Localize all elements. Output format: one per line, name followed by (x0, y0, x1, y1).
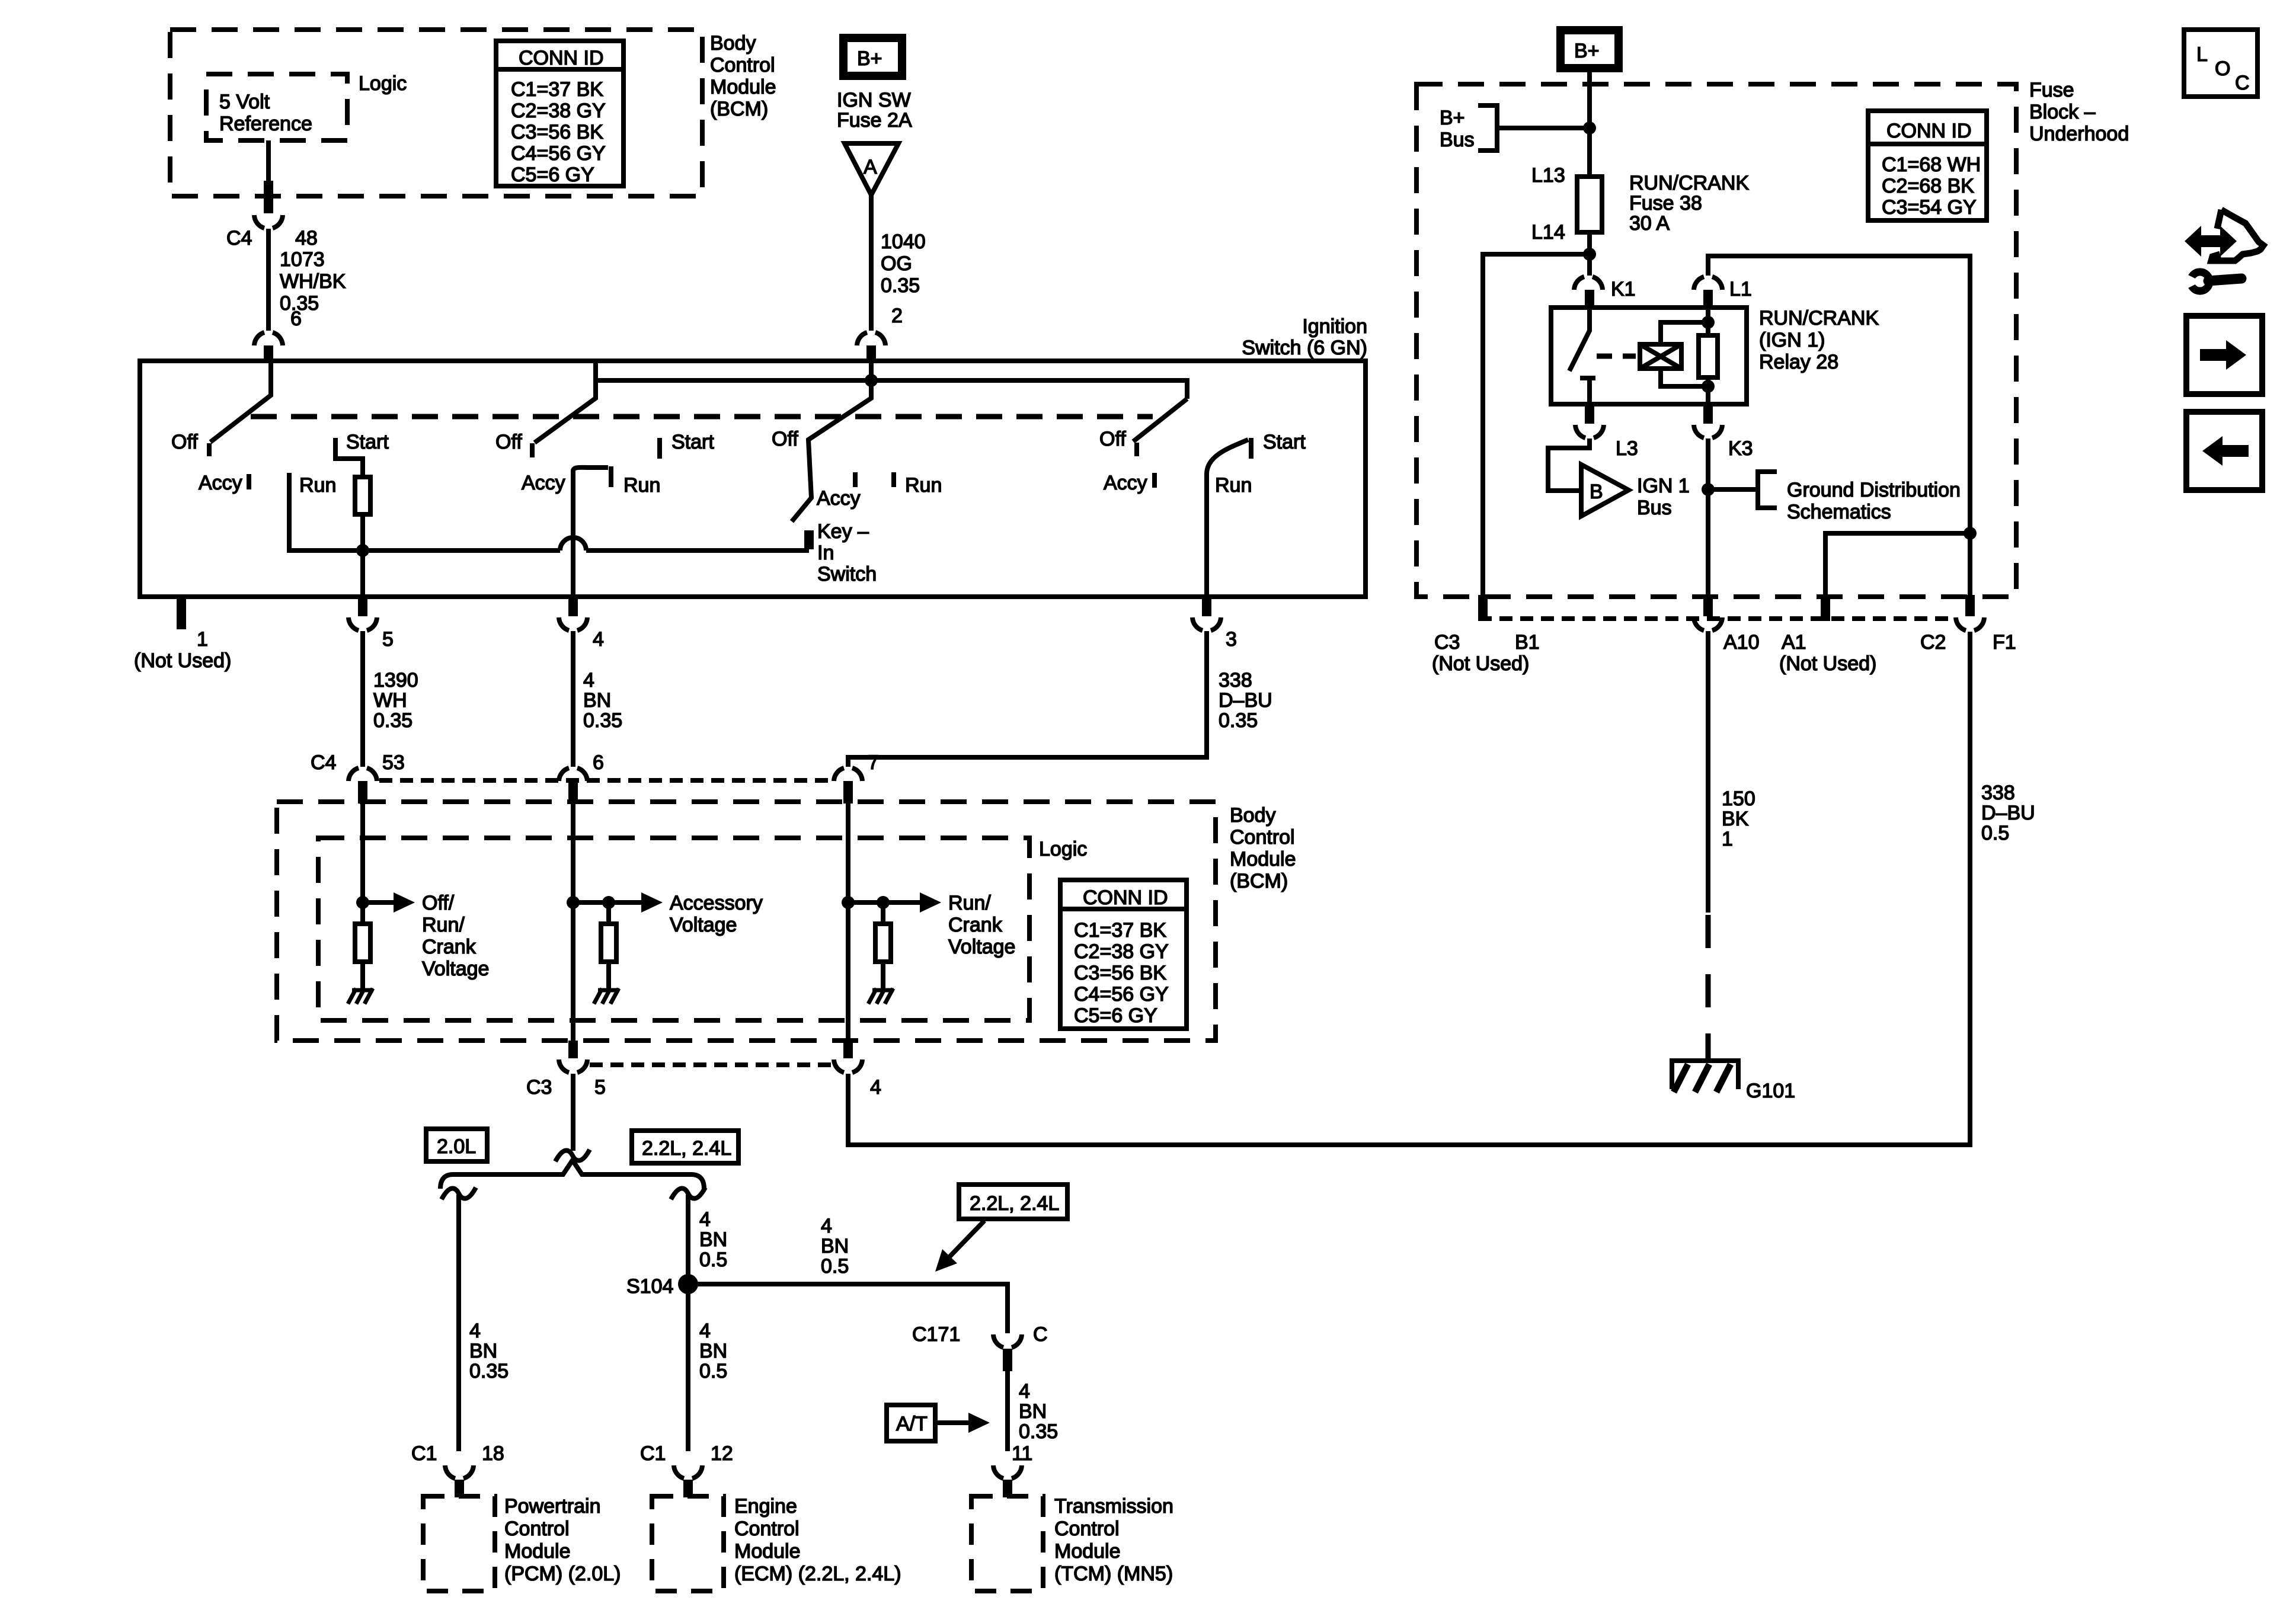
switch 2 Start contact (657, 438, 662, 459)
connector C1-12 (ECM) (674, 1465, 702, 1478)
dotted connector row C4 (379, 778, 832, 783)
BCM module box (top) (170, 30, 702, 196)
CONN ID table 2 (1060, 880, 1187, 1029)
ground (BCM off/run/crank) (348, 988, 373, 1004)
svg-text:0.35: 0.35 (881, 274, 920, 297)
A1 pin stub (not used) (1821, 595, 1830, 621)
svg-text:C5=6 GY: C5=6 GY (511, 164, 594, 186)
svg-text:Module: Module (734, 1540, 801, 1563)
svg-text:Accy: Accy (522, 472, 565, 494)
svg-text:150: 150 (1722, 788, 1755, 810)
svg-text:C1: C1 (640, 1442, 666, 1465)
svg-text:IGN SW: IGN SW (837, 89, 911, 111)
wire 1390 WH (pin5 to C4-53) (360, 631, 365, 767)
BCM module box (lower) (277, 802, 1216, 1041)
svg-text:Ignition: Ignition (1302, 315, 1367, 338)
svg-text:C1=37 BK: C1=37 BK (511, 78, 603, 101)
A/T box (887, 1405, 935, 1441)
double arrow on icon (2185, 226, 2237, 257)
wire from 5V reference down (266, 140, 271, 182)
svg-text:C1: C1 (411, 1442, 437, 1465)
wire K3 down to A10 (1706, 438, 1710, 596)
svg-text:D–BU: D–BU (1981, 802, 2035, 824)
svg-text:12: 12 (711, 1442, 733, 1465)
fuse block box (1416, 84, 2016, 597)
svg-text:Schematics: Schematics (1787, 501, 1891, 523)
wire to ground distribution bracket (1708, 487, 1758, 492)
arrow run/crank voltage (848, 900, 922, 905)
svg-text:4: 4 (583, 669, 594, 692)
ground (BCM accessory) (594, 988, 619, 1004)
svg-text:Module: Module (1054, 1540, 1121, 1563)
svg-text:2: 2 (891, 305, 903, 327)
svg-text:Accy: Accy (817, 487, 861, 510)
junction below fuse (1583, 248, 1596, 261)
svg-text:Logic: Logic (1039, 838, 1087, 860)
svg-text:Module: Module (1230, 848, 1296, 870)
connector A10 (1703, 595, 1713, 616)
split brace (440, 1160, 704, 1189)
svg-text:Body: Body (710, 32, 756, 55)
svg-text:L14: L14 (1531, 221, 1565, 244)
svg-text:0.5: 0.5 (1981, 822, 2009, 844)
svg-text:(Not Used): (Not Used) (134, 649, 231, 672)
relay box RUN/CRANK (IGN 1) Relay 28 (1551, 308, 1747, 404)
svg-text:1390: 1390 (373, 669, 418, 692)
L1 line through relay (1706, 308, 1710, 404)
connector L1 (relay) (1694, 277, 1722, 290)
svg-text:BN: BN (583, 689, 611, 712)
svg-text:53: 53 (382, 751, 405, 774)
svg-text:A/T: A/T (896, 1413, 928, 1435)
relay switch arm (1569, 308, 1590, 371)
svg-text:BN: BN (821, 1235, 849, 1257)
underhood location icon (car outline) (2211, 210, 2263, 261)
switch 3 blade to key-in (792, 380, 871, 521)
svg-text:Relay 28: Relay 28 (1759, 351, 1838, 373)
svg-text:Block –: Block – (2029, 101, 2096, 123)
LOC reference box (2184, 30, 2257, 97)
connector L3 (relay out) (1585, 404, 1594, 424)
svg-text:(PCM) (2.0L): (PCM) (2.0L) (504, 1563, 621, 1585)
svg-text:1073: 1073 (280, 248, 325, 271)
svg-text:4: 4 (821, 1215, 832, 1237)
dashed wire to G101 (1706, 915, 1711, 1061)
switch 1 Accy contact (247, 474, 251, 489)
B+ power symbol box (843, 38, 902, 76)
svg-text:RUN/CRANK: RUN/CRANK (1629, 172, 1749, 194)
fuse 38 element (1577, 177, 1602, 232)
svg-text:1: 1 (197, 628, 208, 651)
svg-text:Fuse: Fuse (2029, 79, 2074, 101)
connector pin 4 at box bottom (568, 597, 578, 616)
junction pin 5 node (356, 544, 369, 557)
svg-text:Powertrain: Powertrain (504, 1495, 601, 1518)
svg-text:(Not Used): (Not Used) (1779, 652, 1876, 675)
svg-text:A: A (864, 156, 877, 178)
svg-text:Module: Module (710, 76, 776, 98)
wire key-in to pin5 node (with hop over pin4 wire) (363, 548, 560, 553)
ground (BCM run/crank) (868, 988, 894, 1004)
PCM module box (423, 1496, 495, 1591)
ignition switch box (140, 361, 1366, 597)
junction ground distribution tap (1702, 483, 1715, 496)
svg-text:C3: C3 (1434, 631, 1460, 654)
IGN 1 Bus triangle B (1581, 465, 1629, 516)
svg-text:B+: B+ (1574, 40, 1600, 62)
svg-text:BN: BN (699, 1340, 727, 1362)
svg-text:C5=6 GY: C5=6 GY (1074, 1004, 1157, 1027)
switch 4 blade (1133, 399, 1187, 441)
svg-text:Accy: Accy (199, 472, 242, 494)
switch 2 Off contact (530, 443, 535, 457)
svg-text:B+: B+ (857, 47, 882, 70)
svg-text:Run: Run (905, 474, 942, 497)
svg-text:Voltage: Voltage (422, 958, 489, 980)
svg-text:C3=56 BK: C3=56 BK (511, 121, 603, 143)
svg-text:Control: Control (1230, 826, 1295, 849)
svg-text:Accy: Accy (1104, 472, 1147, 494)
svg-text:BN: BN (1019, 1400, 1047, 1423)
connector C3-5 below BCM (568, 1041, 578, 1058)
fuse symbol triangle A (845, 143, 898, 195)
svg-text:Control: Control (734, 1518, 800, 1540)
arrow A/T to wire (935, 1420, 971, 1425)
connector pin 5 at box bottom (358, 597, 367, 616)
svg-text:Off: Off (772, 428, 798, 450)
svg-text:1040: 1040 (881, 231, 926, 253)
svg-text:C4=56 GY: C4=56 GY (511, 142, 606, 165)
svg-text:Run: Run (623, 474, 660, 497)
svg-text:K1: K1 (1611, 278, 1636, 300)
svg-text:C4: C4 (226, 227, 252, 249)
svg-text:Logic: Logic (359, 72, 407, 95)
pin 3 wire down (1204, 473, 1209, 597)
svg-text:30 A: 30 A (1629, 212, 1670, 235)
svg-text:Transmission: Transmission (1054, 1495, 1173, 1518)
svg-text:5: 5 (594, 1076, 606, 1099)
relay coil (1640, 344, 1681, 369)
switch 3 Run contact (891, 472, 896, 487)
junction B+ bus (1583, 121, 1596, 135)
BCM wire off/run/crank input (360, 804, 365, 924)
pin 1 stub (not used) (177, 597, 186, 629)
svg-text:0.35: 0.35 (373, 709, 412, 732)
switch 2 blade (535, 380, 596, 443)
svg-text:Run: Run (299, 474, 336, 497)
switch 1 Run contact (289, 473, 363, 550)
wire: connector2 entry into bus (869, 360, 874, 380)
svg-text:Off: Off (1099, 428, 1126, 450)
wrench on icon (2183, 272, 2241, 291)
relay internal resistor (1699, 335, 1718, 377)
svg-text:G101: G101 (1746, 1080, 1795, 1102)
svg-text:Start: Start (1263, 431, 1306, 453)
svg-text:C3=56 BK: C3=56 BK (1074, 962, 1166, 984)
svg-text:(BCM): (BCM) (1230, 870, 1288, 892)
internal dashed rotor line (251, 414, 1153, 420)
svg-text:5 Volt: 5 Volt (219, 91, 270, 113)
wire 338 D-BU (pin3 to C4-7) (848, 631, 1207, 767)
svg-text:Key –: Key – (817, 520, 869, 543)
svg-text:L: L (2196, 43, 2208, 66)
svg-text:Off: Off (171, 431, 198, 453)
svg-text:3: 3 (1226, 628, 1237, 651)
resistor (ignition switch start bypass) (355, 477, 370, 514)
svg-text:Start: Start (671, 431, 714, 453)
splice S104 (678, 1274, 698, 1294)
svg-text:CONN ID: CONN ID (519, 47, 604, 69)
svg-text:4: 4 (870, 1076, 881, 1099)
svg-text:(IGN 1): (IGN 1) (1759, 329, 1825, 351)
svg-text:1: 1 (1722, 828, 1733, 850)
wire 1073 WH/BK to ignition switch (266, 229, 271, 331)
svg-text:B+: B+ (1440, 107, 1465, 129)
svg-text:Crank: Crank (948, 914, 1003, 936)
svg-text:Ground Distribution: Ground Distribution (1787, 479, 1961, 501)
svg-text:Control: Control (1054, 1518, 1120, 1540)
svg-text:C4=56 GY: C4=56 GY (1074, 983, 1169, 1006)
svg-text:Underhood: Underhood (2029, 123, 2129, 145)
svg-text:Control: Control (710, 54, 775, 76)
svg-text:Voltage: Voltage (948, 936, 1015, 958)
forward navigation box (2186, 316, 2262, 394)
svg-text:B1: B1 (1515, 631, 1540, 654)
back navigation box (2186, 412, 2262, 490)
svg-text:A10: A10 (1723, 631, 1760, 654)
resistor accessory sense (601, 924, 616, 962)
B+ power symbol box (fuse block) (1560, 30, 1619, 68)
svg-text:C2=38 GY: C2=38 GY (1074, 940, 1169, 963)
svg-text:0.35: 0.35 (469, 1360, 509, 1382)
svg-text:4: 4 (1019, 1380, 1030, 1403)
svg-text:O: O (2215, 57, 2230, 80)
svg-text:L3: L3 (1616, 437, 1638, 460)
wire B+ bus to main (1497, 126, 1590, 130)
wire B+ down (1587, 68, 1592, 177)
pin 4 wire down (571, 470, 575, 597)
wire L1 up and over to F1 (1708, 256, 1970, 596)
arrow accessory voltage (573, 900, 644, 905)
relay actuation dashed link (1597, 354, 1636, 359)
switch 4 Accy contact (1152, 473, 1157, 488)
BCM wire run/crank input (846, 804, 850, 1041)
svg-text:0.35: 0.35 (583, 709, 622, 732)
relay fixed contact (1580, 378, 1595, 404)
key-in switch fixed contact (804, 530, 814, 549)
dotted connector row C3 (590, 1062, 832, 1067)
svg-text:(BCM): (BCM) (710, 98, 768, 120)
svg-text:338: 338 (1219, 669, 1252, 692)
svg-text:Accessory: Accessory (670, 892, 763, 914)
svg-text:338: 338 (1981, 782, 2015, 804)
svg-text:0.5: 0.5 (699, 1249, 727, 1271)
connector 2 at ignition switch top (857, 332, 885, 345)
wire fuse to K1 (1587, 232, 1592, 276)
svg-text:CONN ID: CONN ID (1886, 120, 1972, 142)
wire A1 branch (1825, 533, 1970, 596)
wire break symbol ECM branch (671, 1188, 705, 1199)
wire break symbol at split top (555, 1150, 590, 1161)
connector C4-53 (348, 768, 377, 781)
svg-text:WH: WH (373, 689, 407, 712)
switch 4 Off contact (1134, 443, 1139, 456)
svg-text:L1: L1 (1729, 278, 1752, 300)
svg-text:48: 48 (295, 227, 318, 249)
svg-text:C171: C171 (912, 1323, 960, 1346)
svg-text:Off/: Off/ (422, 892, 455, 914)
wire 1040 OG from fuse A down (869, 195, 874, 331)
ECM module box (652, 1496, 724, 1591)
svg-text:Run: Run (1215, 474, 1252, 497)
ground G101 (1672, 1061, 1738, 1092)
connector K3 (relay out) (1703, 404, 1713, 424)
switch 1 Start contact (335, 438, 363, 477)
svg-text:K3: K3 (1728, 437, 1753, 460)
svg-text:6: 6 (290, 308, 302, 330)
label box: 2.0L (426, 1129, 487, 1161)
svg-text:OG: OG (881, 252, 912, 275)
wire to ground (360, 962, 365, 990)
connector 11 (TCM) (993, 1465, 1022, 1478)
svg-text:In: In (817, 542, 834, 564)
svg-text:2.0L: 2.0L (437, 1135, 476, 1158)
wire C3-5 down to split (571, 1074, 575, 1151)
svg-text:L13: L13 (1531, 164, 1565, 187)
svg-text:BN: BN (469, 1340, 497, 1362)
CONN ID table 1 (496, 41, 623, 186)
wire 4 BN (pin4 to C4-6) (571, 631, 575, 767)
svg-text:Engine: Engine (734, 1495, 797, 1518)
svg-text:C3: C3 (526, 1076, 552, 1099)
coil wires to L1 line (1661, 322, 1708, 386)
svg-text:0.5: 0.5 (699, 1360, 727, 1382)
svg-text:4: 4 (699, 1320, 711, 1342)
svg-text:S104: S104 (626, 1275, 673, 1298)
svg-text:0.35: 0.35 (1219, 709, 1258, 732)
svg-text:(TCM) (MN5): (TCM) (MN5) (1054, 1563, 1173, 1585)
svg-text:C1=68 WH: C1=68 WH (1882, 153, 1981, 176)
svg-text:Off: Off (495, 431, 522, 453)
svg-text:C2=38 GY: C2=38 GY (511, 100, 606, 122)
svg-text:Bus: Bus (1637, 497, 1672, 519)
svg-text:7: 7 (868, 751, 879, 774)
svg-text:Switch (6 GN): Switch (6 GN) (1242, 337, 1367, 359)
internal top bus wire (596, 361, 1187, 399)
connector pin 3 at box bottom (1202, 597, 1211, 616)
connector C4 pin 48 (stub + half circle) (264, 181, 273, 213)
svg-text:Run/: Run/ (422, 914, 465, 936)
svg-text:18: 18 (482, 1442, 504, 1465)
label box: 2.2L, 2.4L (TCM variant) (959, 1185, 1067, 1219)
svg-text:CONN ID: CONN ID (1083, 886, 1168, 909)
svg-text:4: 4 (469, 1320, 481, 1342)
B+ Bus tap bracket (1478, 105, 1497, 151)
BCM wire accessory input (571, 804, 575, 1041)
connector C1-18 (PCM) (445, 1465, 474, 1478)
resistor run/crank sense (875, 924, 891, 962)
Logic box (318, 838, 1029, 1020)
svg-text:2.2L, 2.4L: 2.2L, 2.4L (642, 1137, 731, 1160)
switch 1 Off contact (207, 443, 212, 456)
svg-text:C4: C4 (311, 751, 336, 774)
svg-text:WH/BK: WH/BK (280, 270, 346, 293)
svg-text:Control: Control (504, 1518, 570, 1540)
svg-text:Reference: Reference (219, 113, 312, 135)
switch 2 Run contact (to pin 4) (573, 468, 608, 471)
dotted connector row (fuse block) (1479, 616, 1953, 621)
svg-text:D–BU: D–BU (1219, 689, 1272, 712)
wire junction to B1 pin (1483, 254, 1590, 596)
svg-text:Voltage: Voltage (670, 914, 737, 936)
svg-text:C2: C2 (1920, 631, 1946, 654)
svg-text:BN: BN (699, 1228, 727, 1251)
connector C171 terminal C (993, 1334, 1022, 1347)
label box: 2.2L, 2.4L (engine variant) (632, 1131, 738, 1163)
svg-text:11: 11 (1012, 1442, 1032, 1465)
arrow off/run/crank voltage (363, 900, 396, 905)
wire L3 to IGN1 bus (1548, 438, 1590, 491)
CONN ID table (fuse block) (1868, 111, 1987, 220)
svg-text:(Not Used): (Not Used) (1432, 652, 1529, 675)
svg-text:RUN/CRANK: RUN/CRANK (1759, 307, 1879, 329)
junction to A1 branch (1964, 527, 1977, 540)
svg-text:0.35: 0.35 (1019, 1420, 1058, 1443)
svg-text:C: C (1033, 1323, 1048, 1346)
wire break symbol PCM branch (442, 1188, 476, 1199)
wire 150 BK from A10 (1706, 631, 1710, 913)
svg-text:C2=68 BK: C2=68 BK (1882, 175, 1974, 197)
switch 3 Accy contact (853, 472, 858, 487)
PCM branch wire (456, 1195, 461, 1451)
svg-text:B: B (1590, 481, 1603, 503)
connector C4-6 (559, 768, 587, 781)
svg-text:IGN 1: IGN 1 (1637, 475, 1690, 497)
ground distribution bracket (1758, 472, 1777, 508)
ECM branch wire (686, 1195, 690, 1451)
switch 1 blade (from C4-6 feed) (210, 361, 271, 442)
svg-text:C3=54 GY: C3=54 GY (1882, 196, 1977, 219)
svg-text:4: 4 (699, 1208, 711, 1231)
svg-text:BK: BK (1722, 808, 1749, 830)
svg-text:Fuse 38: Fuse 38 (1629, 192, 1702, 215)
wire 338 D-BU return (C3-4 to F1) (848, 632, 1970, 1145)
svg-text:5: 5 (382, 628, 394, 651)
switch 4 Start contact (1249, 438, 1253, 459)
wire C171 to TCM (1005, 1370, 1010, 1451)
svg-text:Fuse 2A: Fuse 2A (837, 109, 912, 132)
connector C3-4 below BCM (843, 1041, 853, 1058)
junction at connector 2 entry (865, 374, 878, 387)
svg-text:C: C (2235, 72, 2250, 94)
svg-text:Body: Body (1230, 804, 1276, 827)
5 Volt Reference box (206, 74, 347, 140)
svg-text:4: 4 (593, 628, 604, 651)
TCM module box (971, 1496, 1043, 1591)
svg-text:2.2L, 2.4L: 2.2L, 2.4L (970, 1192, 1059, 1215)
connector K1 (relay) (1574, 277, 1603, 290)
wire S104 to C171 (688, 1284, 1008, 1333)
svg-text:0.5: 0.5 (821, 1255, 849, 1278)
svg-text:Crank: Crank (422, 936, 477, 958)
arrow from 2.2L,2.4L box to wire (949, 1221, 984, 1257)
svg-text:Switch: Switch (817, 563, 877, 585)
svg-text:Start: Start (346, 431, 389, 453)
svg-text:C1=37 BK: C1=37 BK (1074, 919, 1166, 942)
svg-text:(ECM) (2.2L, 2.4L): (ECM) (2.2L, 2.4L) (734, 1563, 901, 1585)
svg-text:F1: F1 (1993, 631, 2016, 654)
connector C4-7 (834, 768, 862, 781)
